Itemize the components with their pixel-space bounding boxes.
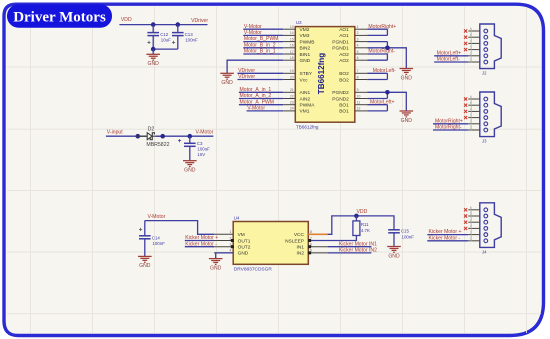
svg-text:VM1: VM1 bbox=[300, 109, 310, 115]
svg-text:BIN1: BIN1 bbox=[300, 52, 311, 58]
wire R11 to NSLEEP bbox=[311, 236, 356, 241]
svg-text:STBY: STBY bbox=[300, 71, 313, 77]
svg-text:OUT1: OUT1 bbox=[238, 238, 251, 244]
wire down to C14 bbox=[144, 221, 146, 236]
svg-text:AO1: AO1 bbox=[339, 27, 349, 33]
net Kicker Motor - to OUT2 bbox=[185, 246, 214, 248]
svg-text:1: 1 bbox=[357, 25, 359, 29]
op IC U3 TB6612fng body bbox=[295, 27, 355, 123]
svg-text:BO1: BO1 bbox=[339, 103, 349, 109]
svg-text:IN2: IN2 bbox=[297, 251, 305, 257]
svg-text:13: 13 bbox=[290, 25, 294, 29]
wire C15 to ground bbox=[393, 233, 395, 247]
ground symbol below C12/C13 bbox=[146, 54, 160, 60]
wire tie pins 1-2 AO1 bbox=[367, 29, 387, 35]
wire V-Motor to U4 VM bbox=[145, 221, 214, 235]
net Kicker Motor IN1 bbox=[328, 246, 372, 248]
wire down to C3 bbox=[189, 136, 191, 143]
svg-text:15: 15 bbox=[290, 37, 294, 41]
svg-text:J2: J2 bbox=[482, 71, 487, 76]
net VDriver to pin 20 bbox=[238, 79, 284, 81]
capacitor C14 100nF bbox=[139, 236, 151, 239]
svg-text:VM2: VM2 bbox=[300, 27, 310, 33]
svg-text:VDriver: VDriver bbox=[191, 18, 208, 24]
junction at C12 top bbox=[151, 22, 156, 27]
svg-text:GND: GND bbox=[401, 118, 413, 124]
junction PGND1 bbox=[385, 46, 390, 51]
svg-text:22: 22 bbox=[290, 94, 294, 98]
U4 right pins bbox=[285, 230, 328, 257]
svg-text:PWMB: PWMB bbox=[300, 39, 315, 45]
svg-text:V-Motor: V-Motor bbox=[247, 106, 265, 112]
net V-Motor to pin 24 bbox=[247, 110, 284, 112]
svg-text:PGND2: PGND2 bbox=[332, 90, 349, 96]
svg-text:6: 6 bbox=[357, 56, 359, 60]
svg-text:U4: U4 bbox=[234, 216, 240, 221]
svg-text:VCC: VCC bbox=[294, 232, 305, 238]
connector J2 motor left bbox=[480, 24, 501, 69]
svg-text:VDD: VDD bbox=[121, 17, 132, 23]
ground symbol below C3 bbox=[183, 161, 197, 167]
title block: Driver Motors bbox=[7, 4, 112, 28]
svg-text:7: 7 bbox=[357, 69, 359, 73]
U3 left pins 13-24 bbox=[283, 25, 315, 115]
wire VDD to R11 bbox=[355, 216, 357, 221]
svg-text:AO2: AO2 bbox=[339, 58, 349, 64]
svg-text:J3: J3 bbox=[482, 139, 487, 144]
svg-text:VDD: VDD bbox=[357, 209, 368, 215]
svg-text:BO2: BO2 bbox=[339, 71, 349, 77]
svg-text:Vcc: Vcc bbox=[300, 77, 309, 83]
svg-text:Kicker Motor -: Kicker Motor - bbox=[185, 241, 217, 247]
junction PGND2 bbox=[385, 90, 390, 95]
svg-text:24: 24 bbox=[290, 107, 294, 111]
svg-text:VM: VM bbox=[238, 232, 245, 238]
svg-text:3: 3 bbox=[357, 37, 359, 41]
capacitor C13 100nF bbox=[172, 33, 184, 36]
wire V-input to diode anode bbox=[106, 135, 146, 137]
svg-text:100nF: 100nF bbox=[402, 235, 415, 240]
svg-text:IN1: IN1 bbox=[297, 245, 305, 251]
ground symbol right of U3 lower bbox=[400, 111, 414, 117]
svg-text:18: 18 bbox=[290, 56, 294, 60]
net Motor_B_PWM to pin 15 bbox=[243, 41, 283, 43]
svg-text:V-Motor: V-Motor bbox=[148, 214, 166, 220]
svg-text:BO2: BO2 bbox=[339, 77, 349, 83]
svg-text:NSLEEP: NSLEEP bbox=[285, 238, 304, 244]
svg-text:4.7K: 4.7K bbox=[361, 228, 370, 233]
svg-text:BO1: BO1 bbox=[339, 109, 349, 115]
svg-text:C15: C15 bbox=[401, 228, 410, 233]
junction at C13 top bbox=[176, 22, 181, 27]
wire diode cathode to V-Motor bbox=[156, 135, 214, 137]
svg-text:PWMA: PWMA bbox=[300, 103, 316, 109]
svg-text:23: 23 bbox=[290, 101, 294, 105]
net V-Motor to pin 13 bbox=[243, 28, 283, 30]
svg-text:Kicker Motor +: Kicker Motor + bbox=[429, 229, 462, 235]
svg-text:Kicker Motor IN2: Kicker Motor IN2 bbox=[339, 248, 377, 254]
svg-text:BIN2: BIN2 bbox=[300, 46, 311, 52]
net Motor_A_in_1 to pin 21 bbox=[239, 91, 283, 93]
svg-text:MotorLeft+: MotorLeft+ bbox=[437, 50, 462, 56]
svg-text:GND: GND bbox=[210, 265, 222, 271]
ground symbol below C14 bbox=[138, 256, 152, 262]
wire tie pins 11-12 BO1 bbox=[367, 105, 387, 111]
svg-text:D2: D2 bbox=[148, 127, 155, 133]
svg-text:21: 21 bbox=[290, 88, 294, 92]
wire C14 to ground bbox=[144, 239, 146, 256]
svg-text:R11: R11 bbox=[361, 222, 369, 227]
svg-text:PGND2: PGND2 bbox=[332, 96, 349, 102]
U3 right pins 1-12 bbox=[332, 25, 367, 115]
ground symbol below U4 bbox=[209, 259, 223, 265]
svg-text:14: 14 bbox=[290, 31, 294, 35]
svg-text:19: 19 bbox=[290, 69, 294, 73]
svg-text:MotorRight+: MotorRight+ bbox=[435, 118, 463, 124]
svg-text:GND: GND bbox=[238, 251, 249, 257]
svg-text:AO2: AO2 bbox=[339, 52, 349, 58]
svg-text:PGND1: PGND1 bbox=[332, 46, 349, 52]
wire tie pins 5-6 AO2 bbox=[367, 54, 387, 60]
net Motor_A_in_2 to pin 22 bbox=[239, 98, 283, 100]
svg-text:C14: C14 bbox=[152, 235, 161, 240]
svg-text:100nF: 100nF bbox=[185, 38, 198, 43]
svg-text:20: 20 bbox=[290, 75, 294, 79]
svg-text:MotorRight-: MotorRight- bbox=[435, 125, 462, 131]
wire C13 bottom lead bbox=[177, 36, 179, 50]
svg-text:4: 4 bbox=[357, 44, 359, 48]
svg-text:V-Motor: V-Motor bbox=[196, 129, 214, 135]
svg-text:9: 9 bbox=[357, 88, 359, 92]
IC U4 DRV8837CDSGR body bbox=[233, 222, 308, 265]
junction after cathode bbox=[160, 134, 165, 139]
svg-text:1: 1 bbox=[230, 230, 232, 234]
svg-text:VM3: VM3 bbox=[300, 33, 310, 39]
svg-text:V-Motor: V-Motor bbox=[244, 24, 262, 30]
svg-text:10uF: 10uF bbox=[161, 38, 171, 43]
svg-text:Driver Motors: Driver Motors bbox=[13, 10, 106, 26]
wire tie pins 9-10 PGND2 bbox=[367, 92, 387, 98]
svg-text:TB6612fng: TB6612fng bbox=[296, 125, 319, 130]
wire tie pins 7-8 BO2 bbox=[367, 73, 387, 79]
wire tie pins 3-4 PGND1 bbox=[367, 42, 387, 48]
junction at gnd drop bbox=[151, 47, 156, 52]
resistor R11 4.7K bbox=[353, 221, 360, 236]
wire C12 top lead bbox=[152, 25, 154, 33]
svg-text:Motor_B_in_2: Motor_B_in_2 bbox=[244, 42, 276, 48]
svg-text:AIN1: AIN1 bbox=[300, 90, 311, 96]
svg-text:Motor_B_PWM: Motor_B_PWM bbox=[244, 36, 279, 42]
svg-text:10: 10 bbox=[357, 94, 361, 98]
net Motor_B_in_2 to pin 16 bbox=[243, 47, 283, 49]
svg-text:DRV8837CDSGR: DRV8837CDSGR bbox=[234, 267, 273, 273]
wire C12 bottom lead bbox=[152, 36, 154, 50]
svg-text:8: 8 bbox=[310, 230, 312, 234]
svg-text:GND: GND bbox=[300, 58, 311, 64]
connector J3 motor right bbox=[480, 92, 501, 137]
capacitor C15 100nF bbox=[388, 230, 400, 233]
svg-text:U3: U3 bbox=[296, 20, 302, 25]
svg-text:V-input: V-input bbox=[107, 129, 123, 135]
pin end markers bbox=[231, 239, 234, 242]
svg-text:OUT2: OUT2 bbox=[238, 245, 251, 251]
svg-text:Motor_A_in_2: Motor_A_in_2 bbox=[240, 93, 272, 99]
svg-text:Motor_A_PWM: Motor_A_PWM bbox=[240, 99, 275, 105]
svg-text:C12: C12 bbox=[160, 32, 169, 37]
svg-text:100uF: 100uF bbox=[197, 146, 210, 151]
svg-text:Motor_A_in_1: Motor_A_in_1 bbox=[240, 87, 272, 93]
svg-text:Kicker Motor IN1: Kicker Motor IN1 bbox=[339, 241, 377, 247]
svg-text:VDriver: VDriver bbox=[238, 68, 255, 74]
svg-text:AO1: AO1 bbox=[339, 33, 349, 39]
svg-text:C13: C13 bbox=[185, 32, 194, 37]
svg-text:MotorLeft+: MotorLeft+ bbox=[370, 99, 395, 105]
svg-text:Kicker Motor -: Kicker Motor - bbox=[429, 235, 461, 241]
wire joining cap bottoms bbox=[153, 48, 178, 50]
wire C13 top lead bbox=[177, 25, 179, 33]
svg-text:J4: J4 bbox=[482, 249, 487, 254]
wire PGND2 to ground bbox=[387, 92, 406, 111]
net Kicker Motor + to OUT1 bbox=[185, 240, 214, 242]
svg-text:PGND1: PGND1 bbox=[332, 39, 349, 45]
U4 left pins bbox=[214, 230, 251, 257]
net V-Motor to pin 14 bbox=[243, 34, 283, 36]
svg-text:GND: GND bbox=[388, 253, 400, 259]
svg-text:MBR5822: MBR5822 bbox=[146, 142, 169, 148]
net Motor_B_in_1 to pin 17 bbox=[243, 53, 283, 55]
junction at diode anode bbox=[136, 134, 141, 139]
junction VDD / R11 bbox=[354, 214, 359, 219]
ground symbol below C15 bbox=[387, 247, 401, 253]
svg-text:GND: GND bbox=[184, 168, 196, 174]
svg-text:MotorLeft-: MotorLeft- bbox=[437, 57, 461, 63]
wire to ground bbox=[152, 49, 154, 54]
svg-text:16: 16 bbox=[290, 44, 294, 48]
svg-text:Kicker Motor +: Kicker Motor + bbox=[185, 235, 218, 241]
svg-text:4: 4 bbox=[230, 249, 232, 253]
svg-text:17: 17 bbox=[290, 50, 294, 54]
wire U4 GND pin to ground bbox=[216, 253, 234, 259]
svg-text:MotorRight+: MotorRight+ bbox=[368, 24, 396, 30]
svg-text:GND: GND bbox=[401, 75, 413, 81]
connector J4 kicker motor bbox=[480, 203, 501, 248]
wire VDD to VDriver rail bbox=[119, 24, 207, 26]
capacitor C3 100uF 16V bbox=[184, 143, 196, 146]
svg-text:AIN2: AIN2 bbox=[300, 96, 311, 102]
wire PGND1 to ground bbox=[387, 48, 406, 69]
svg-text:100nF: 100nF bbox=[152, 241, 165, 246]
svg-text:11: 11 bbox=[357, 101, 361, 105]
svg-text:GND: GND bbox=[139, 263, 151, 269]
svg-text:8: 8 bbox=[357, 75, 359, 79]
junction at C3 tap bbox=[188, 134, 193, 139]
svg-text:5: 5 bbox=[357, 50, 359, 54]
ground symbol at pin 18 bbox=[220, 73, 234, 79]
svg-text:2: 2 bbox=[357, 31, 359, 35]
net VDriver to pin 19 bbox=[238, 72, 284, 74]
ground symbol right of U3 upper bbox=[400, 69, 414, 75]
svg-text:C3: C3 bbox=[197, 141, 203, 146]
wire VCC to VDD rail bbox=[328, 216, 394, 234]
svg-text:TB6612fng: TB6612fng bbox=[317, 53, 326, 94]
svg-text:GND: GND bbox=[148, 61, 160, 67]
wire C3 to ground bbox=[189, 146, 191, 160]
capacitor C12 10uF bbox=[147, 33, 159, 36]
svg-text:MotorLeft-: MotorLeft- bbox=[373, 68, 397, 74]
net Motor_A_PWM to pin 23 bbox=[239, 104, 283, 106]
wire pin 18 GND bbox=[227, 60, 283, 73]
svg-text:GND: GND bbox=[221, 80, 233, 86]
svg-text:MotorRight-: MotorRight- bbox=[368, 49, 395, 55]
diode D2 MBR5822 (schottky) bbox=[136, 133, 164, 140]
svg-text:Motor_B_in_1: Motor_B_in_1 bbox=[244, 49, 276, 55]
svg-text:12: 12 bbox=[357, 107, 361, 111]
net Kicker Motor IN2 bbox=[328, 252, 372, 254]
svg-text:V-Motor: V-Motor bbox=[244, 30, 262, 36]
svg-text:VDriver: VDriver bbox=[238, 74, 255, 80]
svg-text:16V: 16V bbox=[197, 152, 205, 157]
